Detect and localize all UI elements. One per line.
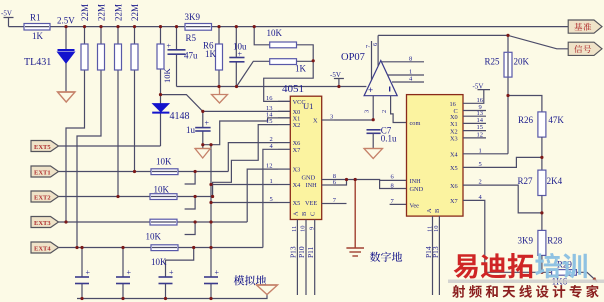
wire through R1	[25, 26, 49, 28]
wire -5V stub near opamp	[334, 79, 344, 87]
svg-text:11: 11	[291, 226, 298, 232]
svg-text:4051: 4051	[282, 83, 304, 95]
resistor 22M 2	[98, 44, 105, 70]
junction dots	[64, 25, 67, 28]
svg-text:12: 12	[477, 132, 484, 139]
wire cap1 riser	[81, 248, 83, 278]
resistor R29 1K6	[552, 270, 577, 276]
svg-text:2: 2	[381, 110, 388, 113]
capacitor C bottom 4	[204, 277, 218, 284]
svg-text:OP07: OP07	[341, 52, 365, 63]
U1 pin names inside	[293, 99, 319, 216]
svg-text:Vee: Vee	[410, 202, 420, 209]
svg-text:1K: 1K	[205, 49, 217, 59]
resistor R28 3K9	[538, 230, 546, 255]
resistor 1K mid	[270, 59, 297, 65]
svg-text:TL431: TL431	[24, 57, 51, 68]
svg-text:R1: R1	[30, 13, 41, 23]
wire 1u bottom node to U1 X1	[203, 118, 290, 145]
U2 pin 16 VDD to -5V	[463, 90, 490, 104]
svg-text:3K9: 3K9	[518, 236, 534, 246]
svg-text:10: 10	[433, 226, 440, 233]
svg-text:20K: 20K	[514, 57, 530, 67]
svg-text:A: A	[426, 208, 433, 213]
watermark underline	[448, 280, 604, 284]
svg-text:EXT2: EXT2	[34, 195, 51, 202]
svg-text:EXT4: EXT4	[34, 246, 51, 253]
op-amp pin 6 output	[377, 35, 379, 66]
svg-text:com: com	[410, 120, 421, 127]
resistor R25 20K	[507, 35, 509, 153]
port EXT3	[31, 217, 59, 228]
capacitor 47u	[168, 50, 186, 54]
svg-text:+: +	[127, 268, 132, 277]
op-amp U3 OP07	[364, 61, 397, 96]
wire caps bottoms to analog ground rail	[82, 284, 211, 299]
svg-text:P10: P10	[297, 246, 306, 258]
wire vertical 10K top	[160, 27, 162, 44]
svg-text:X4: X4	[293, 182, 302, 189]
wire 22M3 bottom elbow to EXT2 row	[117, 70, 119, 197]
svg-text:EXT3: EXT3	[34, 220, 51, 227]
wire top rail 2.5V	[9, 26, 569, 28]
ground digital earth symbol	[346, 180, 364, 257]
svg-text:A: A	[293, 211, 300, 216]
svg-text:X7: X7	[293, 147, 301, 154]
wire U1 X4 tap to bus	[211, 184, 278, 186]
svg-text:X5: X5	[450, 165, 458, 172]
svg-text:X5: X5	[293, 200, 301, 207]
svg-text:16: 16	[266, 95, 273, 102]
svg-text:INH: INH	[410, 178, 422, 185]
U2 bottom pins 11 10	[433, 216, 440, 295]
svg-text:+: +	[169, 268, 174, 277]
svg-text:2K4: 2K4	[547, 176, 563, 186]
svg-text:GND: GND	[302, 175, 316, 182]
resistor 22M 3	[115, 44, 122, 70]
svg-text:10K: 10K	[151, 257, 167, 267]
wire TL431 stem	[65, 27, 67, 50]
wire 10u stem top	[235, 27, 237, 58]
svg-text:12: 12	[266, 163, 273, 170]
svg-text:13: 13	[477, 110, 484, 117]
resistor 10K row5	[151, 245, 178, 251]
wire U2 Vee stub	[390, 203, 407, 205]
svg-text:10K: 10K	[267, 28, 283, 38]
op-amp pin 8 stub	[382, 61, 425, 63]
wire cap3 riser jog	[166, 248, 194, 278]
svg-text:4148: 4148	[170, 111, 190, 122]
svg-text:8: 8	[409, 55, 412, 62]
svg-text:X: X	[313, 118, 318, 125]
wire U2 X5 to R26 bottom node	[463, 157, 542, 167]
wire 1K right to divider node	[297, 60, 314, 62]
wire 10K right to divider node	[297, 45, 314, 61]
ground below 1u	[195, 149, 210, 159]
port EXT2	[31, 191, 59, 202]
wire hook row4	[185, 222, 196, 235]
svg-text:-5V: -5V	[330, 71, 341, 79]
svg-text:P13: P13	[431, 246, 440, 258]
port reference out	[568, 20, 602, 33]
wire U1 VEE stub	[334, 203, 347, 205]
svg-text:16: 16	[477, 97, 484, 104]
wire through R25	[507, 53, 509, 77]
svg-text:X2: X2	[450, 128, 458, 135]
capacitor C7 0.1u	[367, 130, 381, 134]
svg-text:10K: 10K	[156, 157, 172, 167]
wire EXT5 row	[59, 145, 161, 147]
watermark brand	[454, 253, 533, 279]
svg-text:VCC: VCC	[293, 99, 306, 106]
svg-text:R27: R27	[518, 176, 534, 186]
svg-text:22M: 22M	[80, 4, 90, 21]
resistor R6 1K	[216, 44, 223, 70]
wire bus from 1u bottom down to cap4	[210, 145, 212, 277]
wire U1 X5 tap to bus	[211, 202, 278, 204]
WATERMARK	[448, 253, 604, 298]
svg-text:X2: X2	[293, 122, 301, 129]
wire R27 bottom to R28 top	[541, 196, 543, 231]
svg-text:R25: R25	[485, 57, 501, 67]
wire 1u node to U1 X0	[203, 110, 290, 112]
wire U1 GND row to U2 GND with jog	[334, 180, 407, 189]
resistor 10K vertical	[157, 44, 164, 69]
wire bottom right bus	[485, 272, 597, 281]
wire 47u stem	[176, 27, 178, 87]
wire 22M tops	[85, 27, 135, 44]
port EXT5	[31, 141, 59, 152]
wire R28 bottom	[541, 255, 543, 272]
resistor 10K row4	[150, 219, 177, 225]
wire hook row2	[185, 172, 196, 185]
svg-text:47u: 47u	[184, 51, 198, 61]
port EXT4	[31, 242, 59, 253]
wire 10K feed from rail	[254, 27, 270, 45]
port signal out	[568, 42, 602, 55]
arrowhead off-page	[593, 277, 598, 282]
wire EXT1 row to U1 X6 riser	[59, 143, 279, 172]
svg-text:1K: 1K	[295, 64, 307, 74]
wire hook row3	[185, 197, 196, 210]
wire R6 top	[218, 27, 220, 44]
wire U2 X4 to R25 bottom	[463, 153, 508, 155]
wire 1K left diagonal to gnd rail	[237, 61, 270, 86]
svg-text:X0: X0	[450, 114, 458, 121]
svg-text:+: +	[215, 268, 220, 277]
svg-text:22M: 22M	[130, 4, 140, 21]
svg-text:X6: X6	[450, 183, 458, 190]
svg-text:+: +	[167, 42, 172, 51]
svg-text:R5: R5	[186, 33, 197, 43]
svg-text:X1: X1	[450, 121, 458, 128]
svg-text:EXT1: EXT1	[34, 170, 51, 177]
wire 22M2 bottom elbow to EXT1 row	[77, 70, 101, 248]
capacitor 10u	[229, 58, 244, 62]
wire U1 X out to opamp	[334, 119, 373, 121]
svg-text:3K9: 3K9	[185, 12, 201, 22]
ground analog mid (below R6 node)	[212, 87, 228, 104]
svg-text:X4: X4	[450, 152, 459, 159]
svg-text:15: 15	[477, 124, 484, 131]
wire R6 bottom	[218, 70, 220, 87]
svg-text:0.1u: 0.1u	[381, 134, 397, 144]
svg-text:10: 10	[300, 226, 307, 233]
U1 pin stubs right	[322, 120, 334, 204]
wire through 10K row3	[151, 196, 176, 198]
wire 1u cap stems	[202, 111, 204, 148]
wire cap2 riser	[122, 248, 124, 278]
svg-text:+: +	[238, 50, 243, 59]
wire signal diagonal to port	[508, 35, 568, 48]
resistor R5 3K9	[185, 24, 212, 31]
wire output to signal node	[378, 34, 508, 36]
wire -5V stem	[4, 18, 14, 27]
wire EXT3 row to U1 X3 riser	[59, 169, 279, 222]
svg-text:1: 1	[270, 178, 273, 185]
ground below C7	[364, 149, 383, 159]
resistor R26 47K	[538, 112, 546, 137]
svg-text:2.5V: 2.5V	[57, 16, 75, 26]
wire 22M4 bottom to EXT1 row	[134, 70, 136, 172]
svg-text:X7: X7	[450, 198, 458, 205]
svg-text:22M: 22M	[97, 4, 107, 21]
svg-text:47K: 47K	[548, 115, 564, 125]
svg-text:X3: X3	[450, 136, 458, 143]
svg-text:GND: GND	[410, 186, 424, 193]
svg-text:-5V: -5V	[1, 10, 12, 18]
svg-text:15: 15	[266, 118, 273, 125]
port EXT1	[31, 166, 59, 177]
resistor R27 2K4	[538, 170, 546, 195]
IC U1 4051 body	[290, 96, 321, 219]
svg-text:X3: X3	[293, 167, 301, 174]
svg-text:14: 14	[477, 117, 484, 124]
wire EXT4 row to U1 X7 riser	[59, 149, 279, 247]
svg-text:1K: 1K	[32, 31, 44, 41]
op-amp pin 7 V+	[371, 41, 373, 80]
svg-text:3: 3	[363, 110, 370, 113]
op-amp pin 3 noninverting	[372, 96, 374, 120]
wire EXT2 row	[59, 196, 213, 198]
wire through 10K row4	[151, 221, 176, 223]
svg-text:INH: INH	[306, 182, 318, 189]
wire R25 branch to R26 top	[508, 96, 542, 112]
wire 10u bottom	[235, 62, 237, 87]
wire divider node to U1 VCC	[264, 61, 314, 102]
wire X2 staircase from U1 pin15 to EXT2 row	[213, 125, 278, 197]
wire U2 X7 stub to bottom bus	[463, 200, 485, 272]
wire R26 bottom	[541, 137, 543, 170]
ground analog bottom	[257, 285, 278, 295]
svg-text:10K: 10K	[162, 68, 172, 84]
capacitor C bottom 3	[159, 277, 173, 284]
resistor R1	[24, 24, 50, 31]
svg-text:10K: 10K	[146, 232, 162, 242]
svg-text:C: C	[310, 212, 317, 216]
watermark slogan	[452, 285, 599, 298]
svg-text:1u: 1u	[186, 125, 196, 135]
U1 pin numbers left	[266, 95, 274, 203]
wire analog ground bottom rail	[77, 295, 267, 299]
wire U2 X6 to R27-R28 node	[463, 185, 542, 213]
svg-text:-5V: -5V	[473, 83, 484, 91]
svg-text:B: B	[434, 209, 441, 213]
capacitor C bottom 2	[116, 277, 130, 284]
wire diode 4148 cathode down to EXT5 row	[160, 112, 162, 146]
wire through 10K row5	[152, 247, 177, 249]
wire vertical 10K bottom to diode node	[161, 69, 203, 111]
resistor 22M 1	[81, 44, 88, 70]
svg-text:22M: 22M	[114, 4, 124, 21]
wire U1 INH up-join	[334, 180, 347, 186]
svg-text:P11: P11	[306, 246, 315, 258]
svg-text:9: 9	[308, 227, 315, 230]
op-amp pin 2 inverting to U2 com	[391, 96, 407, 123]
wire through 10K row2	[152, 171, 177, 173]
wire through R5	[186, 26, 211, 28]
U2 pin numbers right	[477, 97, 484, 201]
svg-text:B: B	[301, 212, 308, 216]
U2 right pin stubs X0-X3 dangling	[463, 116, 486, 138]
U1 bottom pins 11 10 9	[297, 220, 314, 296]
capacitor C bottom 1	[75, 277, 89, 284]
U2 pin 9 C vertical	[463, 110, 486, 112]
svg-text:R26: R26	[518, 115, 534, 125]
ground below TL431	[58, 92, 76, 102]
label digital ground	[370, 252, 402, 262]
resistor 22M 4	[131, 44, 138, 70]
svg-text:3: 3	[330, 114, 333, 121]
wire U2 INH stub to jog	[380, 179, 407, 181]
op-amp pin 4 stub	[392, 81, 424, 83]
diode TL431	[58, 50, 75, 63]
svg-text:+: +	[86, 268, 91, 277]
svg-text:1: 1	[409, 69, 412, 76]
svg-text:+: +	[368, 85, 373, 95]
diode 4148	[152, 104, 169, 113]
svg-text:+: +	[205, 119, 210, 128]
wire 22M1 bottom elbow to EXT5 row	[66, 70, 85, 222]
wire analog gnd rail to opamp input	[177, 86, 367, 88]
capacitor 1u	[195, 128, 210, 131]
label analog ground	[234, 275, 266, 285]
svg-text:VEE: VEE	[305, 200, 317, 207]
svg-text:R28: R28	[547, 236, 563, 246]
wire TL431 anode to ground	[65, 63, 67, 93]
op-amp pin 1 stub	[388, 74, 425, 76]
svg-text:16: 16	[450, 101, 456, 108]
svg-text:10K: 10K	[154, 185, 170, 195]
U1 pin stubs left	[278, 101, 290, 202]
svg-text:5: 5	[270, 196, 273, 203]
IC U2 4051 body	[407, 95, 464, 217]
svg-text:EXT5: EXT5	[34, 144, 51, 151]
U2 pin names inside	[410, 101, 459, 213]
